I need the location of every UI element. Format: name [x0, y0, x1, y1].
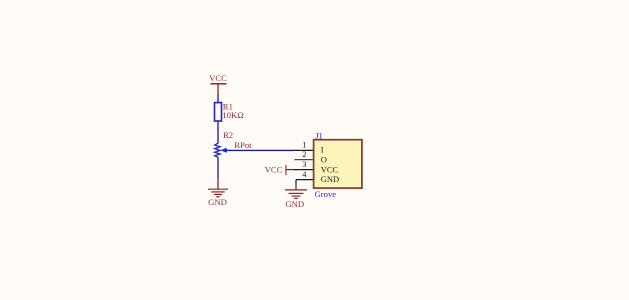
ground (left) stem — [217, 179, 219, 189]
svg-text:2: 2 — [302, 150, 306, 159]
ground (left) bars — [208, 189, 228, 197]
J1 pin 2 (stub) — [295, 159, 314, 161]
svg-text:I: I — [321, 145, 324, 155]
svg-text:Grove: Grove — [315, 189, 337, 199]
J1 pin 4 — [296, 179, 314, 181]
power VCC (pin 3) bar symbol — [285, 165, 287, 175]
power VCC (top) stem — [217, 84, 219, 95]
svg-text:RPot: RPot — [234, 140, 252, 150]
wire R1 to R2 — [217, 122, 219, 144]
svg-text:J1: J1 — [315, 131, 323, 141]
wire R2 to GND — [217, 157, 219, 179]
power VCC (pin 3) stub — [286, 169, 294, 171]
ground (right) stem — [295, 186, 297, 189]
svg-text:VCC: VCC — [209, 73, 227, 83]
ground (right) bars — [285, 190, 307, 199]
svg-text:GND: GND — [285, 199, 304, 209]
svg-text:1: 1 — [302, 141, 306, 150]
J1 pin 3 — [294, 169, 314, 171]
svg-text:VCC: VCC — [321, 164, 339, 174]
potentiometer R2 wiper arrow — [220, 148, 227, 153]
power VCC (top) bar symbol — [211, 83, 227, 85]
potentiometer R2 zigzag — [215, 143, 220, 157]
connector J1 body — [314, 140, 362, 188]
wire R2 wiper to J1 pin 1 — [227, 149, 295, 151]
svg-text:3: 3 — [302, 160, 306, 169]
svg-text:O: O — [321, 155, 327, 165]
wire J1 pin 4 down — [295, 180, 297, 187]
J1 pin 1 — [294, 149, 314, 151]
svg-text:GND: GND — [208, 197, 227, 207]
svg-text:VCC: VCC — [265, 165, 283, 175]
svg-text:10KΩ: 10KΩ — [222, 110, 243, 120]
svg-text:R2: R2 — [223, 130, 233, 140]
svg-text:GND: GND — [321, 174, 339, 184]
resistor R1 — [215, 103, 222, 121]
wire VCC to R1 — [217, 95, 219, 103]
